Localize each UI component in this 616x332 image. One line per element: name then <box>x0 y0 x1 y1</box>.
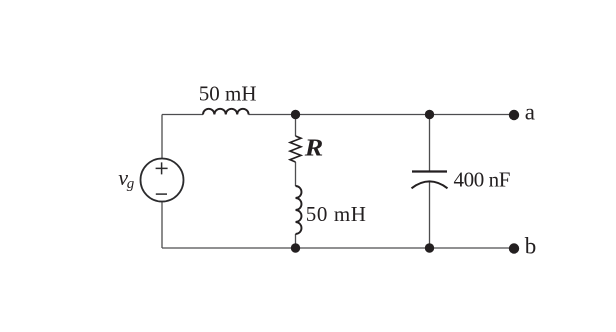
svg-text:b: b <box>525 234 537 259</box>
junction node (top of R branch) <box>291 110 300 119</box>
wire: bottom rail from left corner to shunt branch node <box>162 247 296 249</box>
wire: bottom rail from capacitor node to terminal b <box>430 247 514 249</box>
wire: top rail from source corner to series inductor <box>162 114 203 116</box>
svg-text:R: R <box>304 135 324 161</box>
label a <box>525 100 535 125</box>
label R <box>304 135 324 161</box>
terminal b <box>509 243 519 253</box>
resistor R <box>290 136 301 162</box>
wire: capacitor branch, curved plate to bottom rail <box>429 182 431 249</box>
wire: middle branch, shunt inductor bottom to bottom rail <box>295 234 297 248</box>
inductor L2 50 mH (shunt, middle branch) <box>296 186 302 234</box>
junction node (bottom of shunt branch) <box>291 243 300 252</box>
junction node (top of capacitor branch) <box>425 110 434 119</box>
terminal a <box>509 110 519 120</box>
wire: left rail top (corner down to source) <box>161 115 163 159</box>
wire: top rail from series inductor to node at R branch <box>249 114 297 116</box>
label b <box>525 234 537 259</box>
wire: bottom rail from shunt branch node to capacitor branch node <box>296 247 430 249</box>
wire: top rail from capacitor node to terminal a <box>430 114 514 116</box>
voltage source vg <box>141 159 184 202</box>
label 400 nF <box>454 168 511 192</box>
svg-text:a: a <box>525 100 535 125</box>
wire: middle branch, resistor bottom to shunt inductor top <box>295 162 297 186</box>
wire: top rail from R-branch node to capacitor node <box>296 114 430 116</box>
inductor L1 50 mH (series, top) <box>203 109 249 115</box>
junction node (bottom of capacitor branch) <box>425 243 434 252</box>
wire: capacitor branch, node to top plate <box>429 115 431 172</box>
svg-text:50 mH: 50 mH <box>199 82 257 106</box>
wire: left rail bottom (source down to bottom rail) <box>161 202 163 249</box>
label 50 mH (shunt inductor) <box>306 202 367 226</box>
label vg <box>118 165 135 192</box>
svg-text:50 mH: 50 mH <box>306 202 367 226</box>
wire: middle branch, node to resistor top <box>295 115 297 137</box>
svg-text:400 nF: 400 nF <box>454 168 511 192</box>
svg-text:g: g <box>127 176 135 192</box>
capacitor C 400 nF <box>412 172 448 189</box>
label 50 mH (series inductor) <box>199 82 257 106</box>
